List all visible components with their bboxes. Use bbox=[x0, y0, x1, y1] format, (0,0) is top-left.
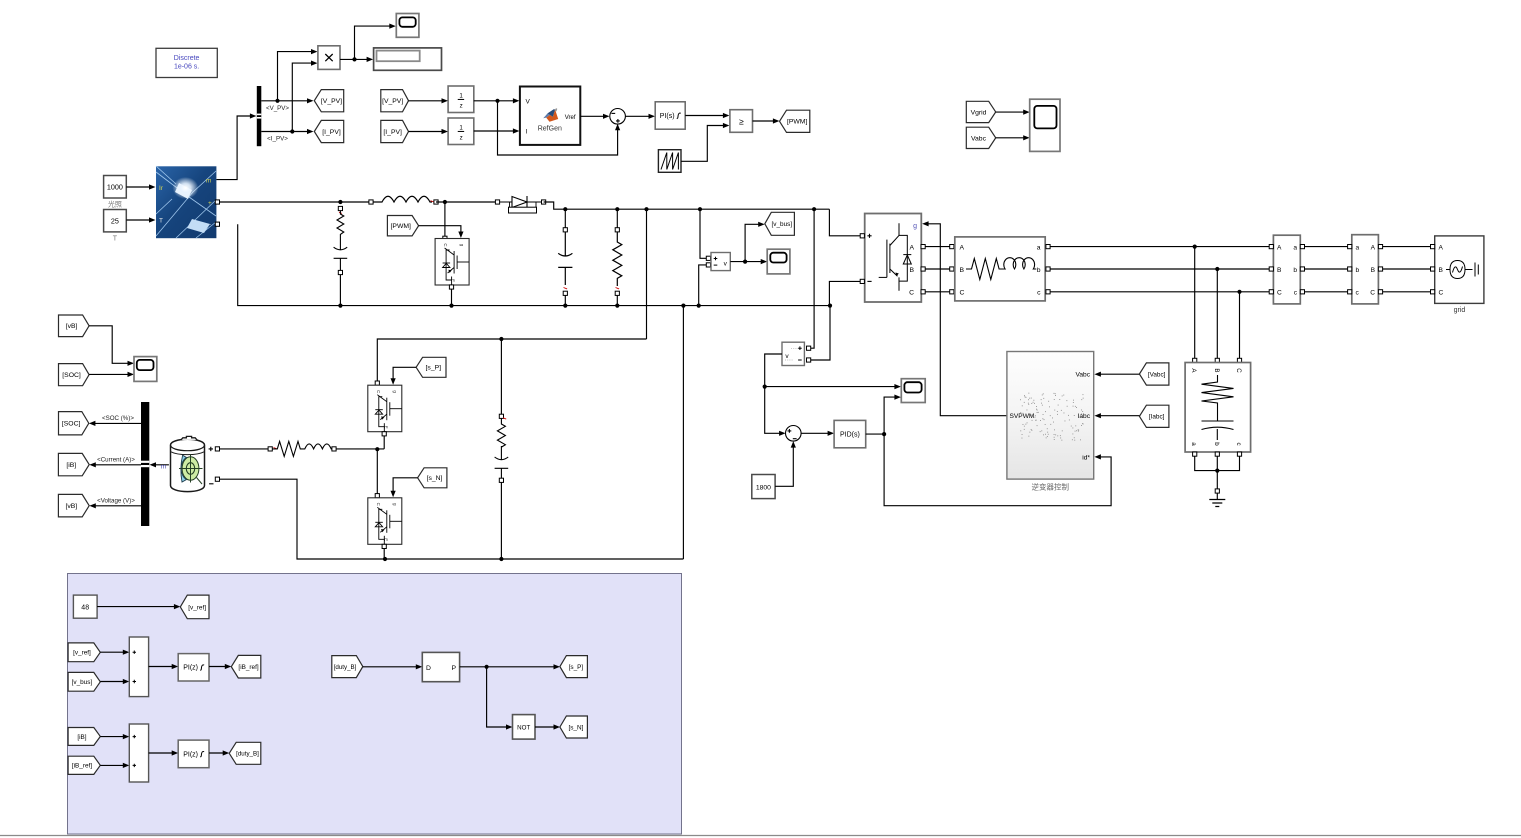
node DC bus capacitor top bbox=[563, 207, 567, 211]
PV - output port bbox=[215, 222, 219, 226]
wire [v_bus] to add1 bbox=[100, 681, 126, 683]
scope (v_bus) bbox=[767, 249, 790, 274]
wire RL to half-bridge midpoint bbox=[336, 448, 384, 450]
canvas bottom divider line bbox=[0, 835, 1521, 837]
from tag [vB] (scope) bbox=[59, 315, 90, 337]
wire [Vabc] to SVPWM bbox=[1098, 373, 1140, 375]
wire measurement2 output to scope and sum bbox=[765, 354, 783, 433]
goto tag [V_PV] bbox=[314, 90, 343, 112]
svg-text:[duty_B]: [duty_B] bbox=[236, 751, 259, 758]
svg-text:<Current (A)>: <Current (A)> bbox=[97, 457, 135, 464]
logical NOT block bbox=[513, 715, 536, 740]
wire 48 to [v_ref] bbox=[97, 606, 177, 608]
wire bus selector to [iB] bbox=[92, 464, 141, 466]
svg-text:<Voltage (V)>: <Voltage (V)> bbox=[97, 498, 135, 505]
svg-text:1: 1 bbox=[459, 124, 463, 131]
svg-text:[vB]: [vB] bbox=[66, 323, 78, 330]
from tag Vgrid bbox=[966, 101, 995, 122]
three-phase grid source block bbox=[1435, 236, 1484, 304]
input RC snubber branch (resistor+capacitor) bbox=[338, 206, 342, 210]
node measurement2 output branch bbox=[763, 385, 767, 389]
wire battery rail to DC positive bbox=[646, 209, 648, 339]
svg-text:Vabc: Vabc bbox=[1075, 372, 1090, 379]
wire DC- to voltage measurement - bbox=[699, 265, 707, 306]
PWM generator (DC-DC) block bbox=[422, 652, 459, 681]
node load tap A bbox=[1193, 245, 1197, 249]
wire add1 to PI(z)1 bbox=[149, 666, 175, 668]
wire node to IGBT collector bbox=[444, 202, 446, 237]
from tag [duty_B] bbox=[332, 656, 363, 678]
svg-text:RefGen: RefGen bbox=[538, 125, 562, 132]
wire [V_PV] to 1/z bbox=[409, 100, 445, 102]
from tag [v_ref] bbox=[68, 643, 100, 662]
constant 1800 bbox=[752, 475, 775, 499]
wire [Iabc] to SVPWM bbox=[1098, 415, 1140, 417]
svg-text:-: - bbox=[209, 221, 211, 228]
svg-text:id*: id* bbox=[1082, 454, 1090, 461]
svg-text:B: B bbox=[1213, 368, 1220, 372]
wire product to display bbox=[340, 58, 370, 60]
three-phase V-I measurement block 1 bbox=[1273, 235, 1300, 304]
from tag [s_N] bbox=[418, 468, 447, 488]
node input RC branch bbox=[338, 200, 342, 204]
goto tag [iB] bbox=[58, 453, 89, 475]
wire tap C down to load bbox=[1239, 292, 1241, 361]
wire diode to DC bus positive rail bbox=[544, 202, 830, 209]
wire inverter B to RLC branch B bbox=[925, 268, 950, 270]
goto tag [v_bus] bbox=[765, 212, 795, 235]
goto tag [I_PV] bbox=[314, 120, 343, 142]
wire 25 to PV T bbox=[126, 219, 152, 221]
svg-text:z: z bbox=[460, 102, 463, 109]
svg-text:PI(z): PI(z) bbox=[183, 665, 198, 672]
svg-text:m: m bbox=[206, 178, 211, 185]
svg-text:[vB]: [vB] bbox=[65, 503, 77, 510]
svg-text:1: 1 bbox=[459, 92, 463, 99]
PI(z) controller 2 bbox=[178, 740, 209, 768]
wire [s_N] to lower IGBT gate bbox=[393, 478, 418, 494]
goto tag [v_ref] bbox=[180, 595, 209, 619]
svg-text:<V_PV>: <V_PV> bbox=[266, 105, 289, 112]
svg-text:[Iabc]: [Iabc] bbox=[1149, 414, 1165, 421]
three-phase line A to measurement bbox=[1050, 246, 1271, 248]
wire sum to PID bbox=[801, 432, 831, 434]
upper IGBT block (s_P) bbox=[375, 381, 379, 385]
svg-text:[V_PV]: [V_PV] bbox=[321, 98, 342, 105]
speckle texture in SVPWM block bbox=[1020, 393, 1084, 441]
wire branch to NOT bbox=[487, 667, 510, 727]
wire [SOC] to battery scope bbox=[89, 373, 131, 375]
svg-text:[s_N]: [s_N] bbox=[427, 475, 443, 482]
svg-text:25: 25 bbox=[111, 216, 119, 225]
wire tap A down to load bbox=[1194, 247, 1196, 361]
svg-text:a: a bbox=[1356, 244, 1360, 251]
node boost switch bbox=[443, 200, 447, 204]
wire PID to SVPWM id* bbox=[884, 434, 1111, 506]
wire product output to scope bbox=[355, 26, 393, 59]
wire PV+ to boost inductor bbox=[220, 201, 372, 203]
svg-text:P: P bbox=[451, 665, 456, 672]
svg-text:PID(s): PID(s) bbox=[840, 432, 860, 439]
wire upper IGBT emitter to midpoint bbox=[383, 436, 385, 449]
wires measurement2 to grid source bbox=[1383, 246, 1432, 248]
three-phase series RLC branch block bbox=[955, 237, 1045, 301]
node PID output bbox=[882, 432, 886, 436]
svg-text:I: I bbox=[526, 129, 528, 136]
node negative rail at IGBT bbox=[449, 304, 453, 308]
bus selector (battery m) bbox=[141, 402, 149, 526]
battery RC filter branch bbox=[500, 339, 502, 414]
wire bus selector to [SOC] bbox=[92, 422, 141, 424]
node load tap B bbox=[1215, 267, 1219, 271]
svg-text:PI(s): PI(s) bbox=[660, 113, 675, 120]
svg-text:[v_bus]: [v_bus] bbox=[772, 221, 793, 228]
svg-text:1800: 1800 bbox=[756, 484, 771, 491]
scope (battery) bbox=[134, 357, 157, 382]
from tag [iB] bbox=[68, 728, 100, 746]
svg-text:grid: grid bbox=[1454, 307, 1466, 314]
voltage measurement (DC link, flipped) bbox=[782, 342, 804, 365]
svg-text:[v_bus]: [v_bus] bbox=[72, 679, 93, 686]
bridge IGBT-diode icon bbox=[879, 223, 912, 291]
svg-text:A: A bbox=[1277, 244, 1282, 251]
node P output branch bbox=[485, 665, 489, 669]
svg-text:Vabc: Vabc bbox=[971, 135, 987, 142]
DC bus negative rail bbox=[238, 224, 830, 305]
svg-text:≥: ≥ bbox=[739, 116, 744, 126]
svg-text:Iabc: Iabc bbox=[1078, 413, 1091, 420]
unit delay 1/z (V) bbox=[448, 86, 474, 113]
svg-text:[SOC]: [SOC] bbox=[62, 421, 81, 428]
wire sawtooth to relational operator bbox=[681, 126, 726, 162]
from tag [I_PV] bbox=[381, 120, 409, 142]
ground symbol bbox=[1216, 493, 1218, 500]
PV array block bbox=[156, 166, 216, 238]
wire [vB] to battery scope bbox=[89, 326, 131, 364]
svg-text:[iB]: [iB] bbox=[66, 462, 76, 469]
svg-text:Vref: Vref bbox=[565, 115, 576, 121]
svg-text:A: A bbox=[909, 244, 914, 251]
display block bbox=[374, 48, 442, 70]
node battery rail at RC filter bbox=[499, 337, 503, 341]
svg-text:[duty_B]: [duty_B] bbox=[334, 664, 357, 671]
wire [s_P] to upper IGBT gate bbox=[393, 367, 416, 381]
battery block bbox=[171, 436, 205, 491]
from tag [V_PV] bbox=[381, 90, 409, 112]
from tag [SOC] (scope) bbox=[59, 364, 90, 386]
wire inverter C to RLC branch C bbox=[925, 291, 950, 293]
wire 1800 to sum bbox=[775, 444, 793, 486]
svg-text:C: C bbox=[960, 289, 965, 296]
from tag [s_P] bbox=[416, 357, 446, 377]
node negative rail at capacitor bbox=[563, 304, 567, 308]
series RL branch (battery) bbox=[268, 447, 272, 451]
gate wire from SVPWM controller bbox=[925, 224, 1007, 416]
wire PI(z)2 to [duty_B] bbox=[209, 752, 226, 754]
svg-text:B: B bbox=[1439, 267, 1444, 274]
battery bridge positive rail bbox=[377, 339, 646, 383]
svg-text:1e-06 s.: 1e-06 s. bbox=[174, 64, 199, 71]
three-phase V-I measurement block 2 bbox=[1352, 235, 1379, 304]
wire to scope v_bus bbox=[745, 261, 764, 263]
scope (grid voltages) bbox=[1030, 99, 1060, 151]
wire P output to [s_P] bbox=[460, 666, 557, 668]
node battery converter feed bbox=[644, 207, 648, 211]
wire RefGen Vref to sum bbox=[580, 115, 606, 117]
wire add2 to PI(z)2 bbox=[149, 752, 175, 754]
svg-text:光照: 光照 bbox=[108, 200, 122, 209]
svg-text:C: C bbox=[909, 289, 914, 296]
svg-text:b: b bbox=[1037, 267, 1041, 274]
wire Vabc to scope bbox=[996, 137, 1027, 139]
add block 2 bbox=[129, 724, 148, 782]
wire DC bus + to inverter + bbox=[829, 209, 860, 236]
node on V_PV wire bbox=[275, 99, 279, 103]
wire bus selector to [vB] bbox=[92, 505, 141, 507]
svg-text:b: b bbox=[1293, 267, 1297, 274]
relational operator >= block bbox=[730, 110, 753, 133]
wire battery - down to bottom rail bbox=[220, 479, 684, 559]
wire v_bus measurement output bbox=[730, 224, 761, 261]
wire bus selector V_PV out bbox=[261, 100, 310, 102]
wire bus- down to measurement2 - bbox=[811, 306, 830, 360]
wire V measured feedback to sum bbox=[498, 101, 618, 155]
svg-text:[I_PV]: [I_PV] bbox=[383, 129, 402, 136]
wire [PWM] to IGBT gate bbox=[419, 226, 461, 235]
svg-text:m: m bbox=[161, 463, 167, 470]
wire tap B down to load bbox=[1216, 269, 1218, 360]
lower IGBT block (s_N) bbox=[375, 494, 379, 498]
series inductor (boost) bbox=[369, 200, 373, 204]
bridge ports bbox=[860, 234, 864, 238]
from tag [v_bus] bbox=[68, 672, 100, 691]
battery + port bbox=[209, 447, 213, 451]
node load neutral bbox=[1215, 469, 1219, 473]
three-phase line C to measurement bbox=[1050, 291, 1271, 293]
bus selector (PV measurements) bbox=[257, 86, 262, 146]
add block 1 bbox=[129, 637, 148, 697]
voltage measurement v_bus bbox=[711, 253, 730, 271]
svg-text:V: V bbox=[526, 98, 531, 105]
node inverter measurement + tap bbox=[812, 207, 816, 211]
goto tag [SOC] bbox=[59, 412, 89, 435]
svg-text:B: B bbox=[1371, 267, 1376, 274]
repeating sequence (sawtooth carrier) bbox=[658, 150, 681, 173]
svg-text:1000: 1000 bbox=[107, 182, 123, 191]
wire [iB_ref] to add2 bbox=[100, 764, 126, 766]
wire resistor to negative rail bbox=[616, 295, 618, 305]
from tag [iB_ref] bbox=[68, 756, 100, 774]
wire DC bus - to inverter - bbox=[829, 281, 860, 305]
svg-text:a: a bbox=[1190, 442, 1197, 446]
load bottom join wires bbox=[1193, 452, 1197, 456]
sum block (vdc ref compare) bbox=[786, 426, 802, 442]
wire bottom rail up to DC negative rail bbox=[682, 306, 684, 559]
wire 1/z I to RefGen I input bbox=[474, 130, 516, 132]
wire I_PV to product input 2 bbox=[292, 63, 314, 131]
goto tag [s_N] (panel) bbox=[560, 716, 588, 738]
node v_bus measurement + tap bbox=[698, 207, 702, 211]
wire capacitor to negative rail bbox=[564, 295, 566, 305]
svg-text:Vgrid: Vgrid bbox=[971, 109, 987, 116]
constant block 25 (temperature) bbox=[104, 210, 127, 232]
svg-text:a: a bbox=[1293, 244, 1297, 251]
wire relational to [PWM] goto bbox=[753, 120, 777, 122]
wire lower IGBT emitter to bottom rail bbox=[383, 548, 385, 559]
wire DC+ to voltage measurement + bbox=[700, 209, 706, 258]
node feedback on V wire bbox=[495, 99, 499, 103]
svg-text:A: A bbox=[960, 244, 965, 251]
node on product output bbox=[352, 57, 356, 61]
goto tag [iB_ref] bbox=[231, 655, 260, 678]
node negative rail at resistor bbox=[615, 304, 619, 308]
svg-text:[PWM]: [PWM] bbox=[787, 119, 807, 126]
svg-text:+: + bbox=[208, 200, 212, 207]
PV + output port bbox=[215, 200, 219, 204]
wire midpoint to lower IGBT collector bbox=[376, 449, 378, 494]
wire RC filter to bottom rail bbox=[500, 482, 502, 559]
svg-text:[PWM]: [PWM] bbox=[391, 223, 411, 230]
universal bridge inverter block bbox=[865, 214, 922, 303]
goto tag [s_P] (panel) bbox=[560, 656, 588, 678]
from tag Vabc bbox=[966, 127, 995, 148]
svg-text:A: A bbox=[1439, 244, 1444, 251]
svg-text:g: g bbox=[913, 223, 917, 230]
load RC icon bbox=[1202, 375, 1234, 440]
svg-text:<SOC (%)>: <SOC (%)> bbox=[102, 415, 134, 422]
goto tag [duty_B] bbox=[229, 742, 261, 764]
three-phase RLC load block bbox=[1185, 363, 1251, 453]
node DC bus resistor top bbox=[615, 207, 619, 211]
wire RC branch to negative rail bbox=[339, 275, 341, 306]
svg-text:[s_P]: [s_P] bbox=[426, 365, 442, 372]
node bottom rail at lower IGBT emitter bbox=[383, 557, 387, 561]
from tag [Vabc] bbox=[1139, 363, 1169, 385]
battery control subsystem panel bbox=[68, 574, 682, 835]
svg-text:c: c bbox=[1235, 442, 1242, 445]
goto tag [vB] bbox=[58, 494, 89, 517]
MATLAB logo in RefGen bbox=[543, 108, 558, 122]
wire battery + to series RL bbox=[220, 448, 269, 450]
DC bus capacitor branch bbox=[564, 209, 566, 227]
svg-text:<I_PV>: <I_PV> bbox=[267, 136, 288, 143]
constant block 1000 (irradiance) bbox=[104, 176, 127, 199]
goto tag [PWM] bbox=[780, 110, 810, 132]
wire inductor to diode bbox=[436, 201, 495, 203]
grid source sine icon bbox=[1446, 261, 1478, 279]
three-phase line B to measurement bbox=[1050, 268, 1271, 270]
node bottom rail at RC filter bbox=[499, 557, 503, 561]
from tag [Iabc] bbox=[1139, 405, 1169, 427]
wire NOT to [s_N] bbox=[535, 726, 557, 728]
svg-text:A: A bbox=[1371, 244, 1376, 251]
unit delay 1/z (I) bbox=[448, 118, 474, 145]
wire Vgrid to scope bbox=[996, 111, 1027, 113]
svg-text:[I_PV]: [I_PV] bbox=[322, 129, 341, 136]
wire inverter A to RLC branch A bbox=[925, 246, 950, 248]
svg-text:[Vabc]: [Vabc] bbox=[1148, 371, 1166, 378]
boost IGBT block bbox=[443, 236, 447, 240]
annotation Discrete 1e-06 s. bbox=[156, 48, 217, 77]
node negative rail v_bus - tap bbox=[697, 304, 701, 308]
wire battery m to bus selector bbox=[153, 464, 169, 466]
wire PI(z)1 to [iB_ref] bbox=[209, 666, 228, 668]
branch out ports bbox=[1046, 245, 1050, 249]
svg-text:[SOC]: [SOC] bbox=[62, 372, 81, 379]
wire 1000 to PV Ir bbox=[126, 186, 152, 188]
constant 48 bbox=[73, 595, 97, 618]
wire 1/z V to RefGen V input bbox=[474, 100, 516, 102]
wire branch to scope (input 1) bbox=[765, 386, 898, 388]
svg-text:NOT: NOT bbox=[517, 725, 530, 732]
svg-text:Discrete: Discrete bbox=[174, 55, 200, 62]
wire PI(s) to relational operator bbox=[685, 115, 726, 117]
svg-text:[iB_ref]: [iB_ref] bbox=[72, 763, 92, 770]
svg-text:z: z bbox=[460, 134, 463, 141]
MATLAB function block RefGen bbox=[520, 87, 580, 145]
svg-text:b: b bbox=[1213, 442, 1220, 446]
scope (DC link volt) bbox=[901, 379, 925, 403]
node negative rail battery bridge drop bbox=[681, 304, 685, 308]
wire PID output bbox=[866, 433, 884, 435]
svg-text:[s_P]: [s_P] bbox=[569, 664, 584, 671]
svg-text:B: B bbox=[960, 267, 965, 274]
wire bus selector I_PV out bbox=[261, 131, 310, 133]
svg-text:a: a bbox=[1037, 244, 1041, 251]
svg-text:b: b bbox=[1356, 267, 1360, 274]
svg-text:PI(z): PI(z) bbox=[183, 751, 198, 758]
battery - port bbox=[209, 483, 213, 485]
svg-text:B: B bbox=[909, 267, 914, 274]
wire [iB] to add2 bbox=[100, 736, 126, 738]
node v_bus output bbox=[743, 260, 747, 264]
svg-text:C: C bbox=[1235, 368, 1242, 373]
wire [v_ref] to add1 bbox=[100, 651, 126, 653]
svg-text:T: T bbox=[113, 236, 118, 243]
scope (PV power) bbox=[396, 14, 419, 38]
node negative rail at RC branch bbox=[338, 304, 342, 308]
sum block (Vref - V) bbox=[610, 109, 626, 125]
svg-text:[iB_ref]: [iB_ref] bbox=[238, 664, 258, 671]
RL icon inside branch block bbox=[966, 258, 1036, 280]
svg-text:[s_N]: [s_N] bbox=[568, 724, 583, 731]
svg-text:B: B bbox=[1277, 267, 1282, 274]
PI(z) controller 1 bbox=[178, 654, 209, 681]
node half-bridge midpoint bbox=[375, 447, 379, 451]
svg-text:[v_ref]: [v_ref] bbox=[73, 650, 91, 657]
svg-text:[iB]: [iB] bbox=[77, 734, 86, 741]
svg-text:逆变器控制: 逆变器控制 bbox=[1032, 482, 1070, 492]
DC bus resistor branch bbox=[616, 209, 618, 227]
wires measurement1 to measurement2 bbox=[1305, 246, 1350, 248]
product block bbox=[318, 46, 340, 70]
svg-text:48: 48 bbox=[81, 605, 89, 612]
PID(s) controller block bbox=[834, 420, 866, 447]
wire [duty_B] to PWM generator D bbox=[363, 666, 419, 668]
svg-text:T: T bbox=[159, 218, 163, 225]
wire PID to scope input 2 bbox=[884, 397, 898, 434]
wire bus+ down to measurement2 + bbox=[811, 209, 814, 348]
boost diode with snubber bbox=[495, 200, 499, 204]
wire PV m to bus selector bbox=[216, 116, 253, 180]
node negative rail inverter - tap bbox=[828, 304, 832, 308]
wire V_PV to product input 1 bbox=[278, 52, 315, 101]
node on I_PV wire bbox=[290, 129, 294, 133]
svg-text:C: C bbox=[1439, 289, 1444, 296]
wire sum to PI(s) bbox=[625, 115, 651, 117]
wire IGBT emitter to negative rail bbox=[451, 289, 453, 306]
wire [I_PV] to 1/z bbox=[409, 131, 445, 133]
